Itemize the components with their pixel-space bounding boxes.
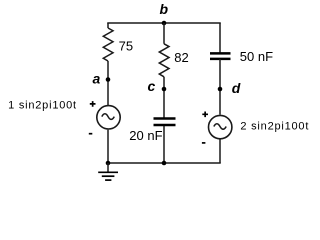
node b <box>160 1 169 25</box>
svg-text:50 nF: 50 nF <box>240 49 273 64</box>
node d <box>218 80 241 96</box>
wire from resistor 82 to capacitor 20nF <box>163 77 165 118</box>
wire from capacitor 50nF to source V2 <box>219 59 221 115</box>
wire top bus from left branch to right branch <box>107 22 221 24</box>
wire from source V1 to bottom bus <box>107 130 109 163</box>
svg-text:c: c <box>148 78 156 94</box>
source V2 (2 sin2pi100t) <box>202 112 309 143</box>
svg-text:1 sin2pi100t: 1 sin2pi100t <box>8 100 76 112</box>
svg-text:2 sin2pi100t: 2 sin2pi100t <box>240 121 308 133</box>
junction bottom-middle <box>162 161 167 166</box>
svg-text:b: b <box>160 1 169 17</box>
svg-text:20 nF: 20 nF <box>129 128 162 143</box>
node c <box>148 78 167 94</box>
wire from capacitor 20nF to bottom bus <box>163 126 165 163</box>
wire right branch top stub <box>219 23 221 53</box>
svg-text:75: 75 <box>119 38 133 53</box>
junction bottom-left <box>106 161 111 166</box>
capacitor 50 nF <box>210 49 273 64</box>
svg-text:82: 82 <box>174 50 188 65</box>
wire from resistor 75 to source V1 <box>107 61 109 105</box>
source V1 (1 sin2pi100t) <box>8 100 120 134</box>
wire bottom bus <box>107 162 221 164</box>
svg-text:a: a <box>93 71 101 87</box>
resistor 82 <box>159 44 188 77</box>
svg-text:d: d <box>232 80 241 96</box>
node a <box>93 71 111 87</box>
wire middle branch top stub <box>163 23 165 44</box>
wire left branch top stub <box>107 23 109 28</box>
resistor 75 <box>103 28 133 61</box>
capacitor 20 nF <box>129 119 175 144</box>
ground <box>98 163 118 180</box>
wire from source V2 to bottom bus <box>219 140 221 164</box>
